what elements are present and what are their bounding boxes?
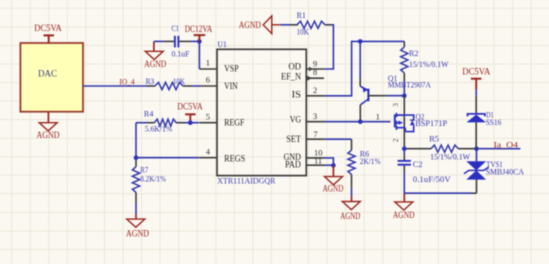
svg-text:AGND: AGND [340,211,360,221]
svg-text:DC12VA: DC12VA [185,24,213,34]
svg-text:11: 11 [314,155,322,165]
svg-text:R1: R1 [297,11,306,20]
svg-text:0.1uF: 0.1uF [172,49,190,58]
svg-text:AGND: AGND [144,59,166,69]
svg-text:5.6K/1%: 5.6K/1% [145,125,173,134]
svg-text:2: 2 [391,138,400,142]
svg-text:3: 3 [391,103,400,107]
svg-text:MMBT2907A: MMBT2907A [388,80,431,89]
svg-text:R2: R2 [409,49,419,58]
svg-text:BSP171P: BSP171P [415,119,447,128]
svg-text:AGND: AGND [393,210,415,220]
svg-text:PAD: PAD [285,161,301,171]
svg-text:IS: IS [292,91,301,101]
svg-text:VIN: VIN [224,82,238,92]
svg-text:8: 8 [313,67,317,77]
svg-text:3: 3 [313,111,317,121]
svg-text:R5: R5 [429,135,439,144]
svg-text:0.1uF/50V: 0.1uF/50V [413,175,451,184]
svg-text:DC5VA: DC5VA [462,67,490,77]
svg-text:Ia_O4: Ia_O4 [494,139,519,149]
svg-text:C2: C2 [413,160,423,169]
svg-text:1: 1 [376,111,380,121]
svg-text:5: 5 [206,111,210,121]
svg-text:R7: R7 [140,166,148,175]
svg-text:R3: R3 [146,77,155,86]
svg-text:REGF: REGF [224,119,244,129]
svg-text:DC5VA: DC5VA [177,102,203,112]
svg-text:EF_N: EF_N [281,73,301,83]
svg-text:15/1%/0.1W: 15/1%/0.1W [409,60,448,69]
svg-text:AGND: AGND [126,228,149,238]
svg-text:AGND: AGND [37,130,60,140]
svg-text:2K/1%: 2K/1% [360,157,381,166]
svg-text:VSP: VSP [224,65,239,75]
svg-text:DC5VA: DC5VA [34,23,62,33]
svg-text:1: 1 [206,58,210,68]
svg-text:SMBJ40CA: SMBJ40CA [486,167,524,176]
svg-text:IO_4: IO_4 [119,76,135,86]
svg-text:6: 6 [206,75,210,85]
svg-text:15/1%/0.1W: 15/1%/0.1W [430,152,470,161]
svg-text:VG: VG [290,116,302,126]
svg-text:OD: OD [289,63,302,73]
svg-text:AGND: AGND [239,20,262,30]
svg-text:SET: SET [286,135,301,145]
svg-text:10K: 10K [297,28,309,37]
svg-text:2: 2 [313,85,317,95]
svg-text:XTR111AIDGQR: XTR111AIDGQR [217,175,276,185]
svg-text:10K: 10K [173,77,185,86]
svg-text:8.2K/1%: 8.2K/1% [140,175,166,184]
svg-text:DAC: DAC [38,68,57,78]
svg-text:REGS: REGS [224,154,245,164]
svg-text:SS16: SS16 [486,118,502,127]
svg-text:R4: R4 [144,109,154,118]
svg-text:AGND: AGND [323,183,344,193]
svg-text:7: 7 [313,129,317,139]
svg-text:U1: U1 [218,39,227,49]
svg-text:C1: C1 [172,24,180,33]
